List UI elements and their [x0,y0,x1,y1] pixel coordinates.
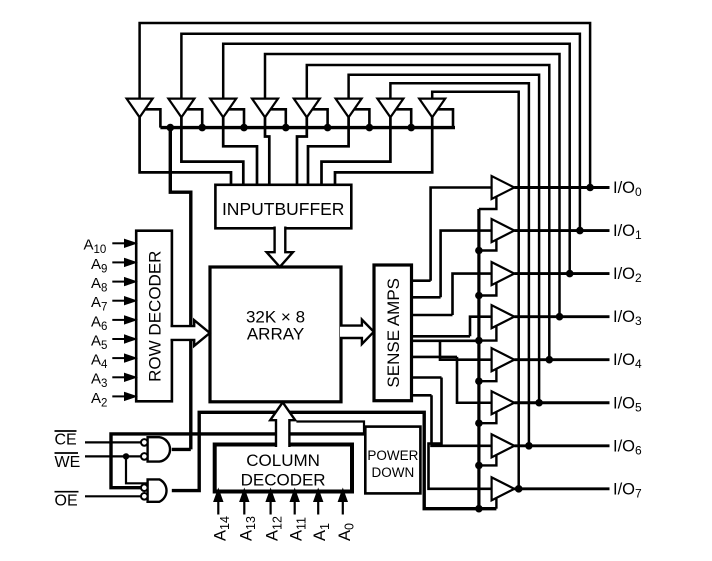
block: 32K x 8 ARRAY box [210,267,341,402]
input A11 arrow [294,500,296,515]
gate G2 (WE,CE,OE) AND body [148,479,167,501]
input A6 arrow [112,319,126,321]
gate G1 input bubble WE [141,453,148,460]
gate G2 input bubble OE [141,493,148,500]
wire: enable tap of input buffer T7 [396,109,411,127]
wire: CE input line [85,441,141,443]
input A14 arrow [217,500,219,515]
svg-text:ARRAY: ARRAY [247,325,304,344]
wire: enable tap of input buffer T5 [313,109,328,127]
input buffer triangle T1 [127,99,153,118]
wire: I/O5 output line [514,401,609,404]
input A4 arrow [112,357,126,359]
input buffer triangle T5 [294,99,320,118]
wire: NAND G1 output [172,448,191,451]
gate G1 input bubble CE [141,439,148,446]
wire: I/O4 output line [514,358,609,361]
wire: I/O1 output line [514,229,609,232]
wire: WE branch to NAND G2 [126,456,148,483]
input A8 arrow [112,281,126,283]
wire: riser to output buffer B0 [431,188,492,281]
block: SENSE AMPS box [374,265,412,401]
svg-text:WE: WE [55,454,81,471]
input A10 arrow [112,242,126,244]
junction dot on I/O6 line [525,442,533,450]
junction dot on I/O1 line [576,227,584,235]
input buffer triangle T6 [336,99,362,118]
wire: enable tap of input buffer T8 [438,109,453,127]
wire: riser to output buffer B1 [441,231,492,298]
wire: enable stub of output buffer B4 [479,369,497,381]
output buffer triangle B3 [492,305,515,328]
svg-text:DOWN: DOWN [372,465,415,480]
junction dot on write-enable bus at control feed [167,124,175,132]
block: ROW DECODER box [136,231,172,402]
wire: riser to output buffer B3 [470,317,492,337]
block: COLUMN DECODER box [215,445,352,492]
wire: riser to output buffer B2 [453,274,492,315]
block: INPUTBUFFER box [215,185,351,229]
hollow arrow: INPUTBUFFER to array [267,227,293,267]
junction dot on output-enable bus at B2 [475,292,483,300]
wire: input buffer T8 output to INPUTBUFFER [335,117,432,185]
input buffer triangle T3 [210,99,236,118]
wire: I/O7 feedback top run [432,92,519,489]
svg-text:CE: CE [55,432,77,449]
junction dot on output-enable bus at B5 [475,419,483,427]
wire: I/O1 feedback top run [181,34,580,231]
wire: riser to output buffer B5 [457,357,492,403]
junction dot on I/O2 line [566,270,574,278]
junction dot on I/O3 line [556,313,564,321]
wire: enable stub of output buffer B5 [479,412,497,423]
input A9 arrow [112,261,126,263]
wire: sense amp output 5 [412,339,479,342]
input A12 arrow [270,500,272,515]
junction dot on write-enable bus at T7 [407,124,415,132]
wire: I/O6 output line [514,444,609,447]
junction dot on write-enable bus at T6 [366,124,374,132]
input buffer triangle T8 [419,99,445,118]
input A3 arrow [112,376,126,378]
hollow arrow: array to SENSE AMPS [340,320,374,344]
wire: enable stub of output buffer B1 [479,240,497,251]
svg-text:COLUMN: COLUMN [246,451,320,470]
wire: sense amp output 1 [412,279,431,282]
wire: input buffer T3 output to INPUTBUFFER [223,117,257,185]
junction dot on write-enable bus at T5 [324,124,332,132]
wire: write-enable bus under input buffers [160,126,455,129]
input A1 arrow [317,500,319,515]
input A2 arrow [112,395,126,397]
hollow arrow: COLUMN DECODER to array [270,402,295,447]
output buffer triangle B6 [492,434,515,457]
output buffer triangle B0 [492,176,515,199]
wire: output-enable bus vertical [477,209,480,509]
svg-text:POWER: POWER [367,448,418,463]
wire: WE input line [85,455,141,457]
wire: I/O0 feedback top run [140,23,590,188]
wire: I/O2 feedback top run [223,44,570,274]
wire: input buffer T5 output to INPUTBUFFER [297,117,307,185]
wire: NAND G2 output to output-enable bus [172,412,497,508]
gate G2 input bubble CE [141,484,148,491]
junction dot on output-enable bus at B4 [475,377,483,385]
wire: sense amp output 7 [412,376,442,379]
junction dot on I/O4 line [546,356,554,364]
wire: enable tap of input buffer T1 [145,109,160,127]
input buffer triangle T4 [252,99,278,118]
wire: I/O3 output line [514,315,609,318]
wire: OE input line [85,495,141,497]
wire: CE net to POWER DOWN and NAND G2 [111,434,365,488]
junction dot on write-enable bus at T4 [282,124,290,132]
svg-text:OE: OE [55,492,78,509]
wire: enable stub of output buffer B2 [479,283,497,296]
wire: enable stub of output buffer B0 [479,197,497,209]
wire: I/O3 feedback top run [265,54,560,317]
wire: enable tap of input buffer T6 [354,109,369,127]
output buffer triangle B5 [492,391,515,414]
wire: write control from NAND G1 up to bus [170,128,191,450]
wire: sense amp output 4 [412,335,471,338]
wire: enable tap of input buffer T3 [229,109,244,127]
junction dot on I/O5 line [535,399,543,407]
svg-text:INPUTBUFFER: INPUTBUFFER [222,199,345,219]
gate G1 (CE,WE) AND body [148,437,170,461]
junction dot on I/O0 line [586,184,594,192]
block: POWER DOWN box [365,427,420,494]
wire: sense amp output 8 [412,394,432,397]
junction dot on WE line [123,453,129,459]
wire: input buffer T2 output to INPUTBUFFER [181,117,243,185]
svg-text:DECODER: DECODER [241,471,326,490]
junction dot on output-enable bus at B6 [475,462,483,470]
wire: I/O0 output line [514,186,609,189]
input A5 arrow [112,338,126,340]
wire: enable tap of input buffer T4 [271,109,286,127]
wire: enable stub of output buffer B3 [479,326,497,341]
wire: input buffer T6 output to INPUTBUFFER [308,117,349,185]
junction dot on I/O7 line [515,485,523,493]
wire: column decoder arrow to power down corner [296,422,364,434]
output buffer triangle B7 [492,477,515,500]
input buffer triangle T7 [377,99,403,118]
wire: input buffer T1 output to INPUTBUFFER [140,117,231,185]
output buffer triangle B2 [492,262,515,285]
wire: I/O7 output line [514,487,609,490]
wire: I/O5 feedback top run [349,75,539,403]
wire: I/O6 feedback top run [390,83,529,446]
wire: riser to output buffer B6 [432,395,492,446]
junction dot on output-enable bus at B1 [475,247,483,255]
wire: sense amp output 3 [412,314,453,317]
hollow arrow: ROW DECODER to array [171,320,210,346]
junction dot on output-enable bus at B3 [475,337,483,345]
svg-text:SENSE AMPS: SENSE AMPS [384,278,403,388]
input A7 arrow [112,300,126,302]
wire: I/O4 feedback top run [307,65,550,360]
junction dot on write-enable bus at T3 [240,124,248,132]
wire: sense amp output 6 [412,356,458,359]
wire: enable stub of output buffer B6 [479,455,497,465]
input A0 arrow [342,500,344,515]
wire: sense amp output 2 [412,296,441,299]
wire: enable stub of output buffer B7 [495,498,497,509]
wire: riser to output buffer B4 [440,341,492,360]
output buffer triangle B4 [492,348,515,371]
svg-text:ROW DECODER: ROW DECODER [145,251,164,382]
junction dot at output-enable bus bottom [475,505,483,513]
wire: riser to output buffer B7 [429,378,492,489]
input buffer triangle T2 [168,99,194,118]
wire: input buffer T7 output to INPUTBUFFER [322,117,391,185]
wire: enable tap of input buffer T2 [187,109,202,127]
junction dot on write-enable bus at T2 [198,124,206,132]
wire: I/O2 output line [514,272,609,275]
wire: input buffer T4 output to INPUTBUFFER [265,117,269,185]
output buffer triangle B1 [492,219,515,242]
input A13 arrow [243,500,245,515]
